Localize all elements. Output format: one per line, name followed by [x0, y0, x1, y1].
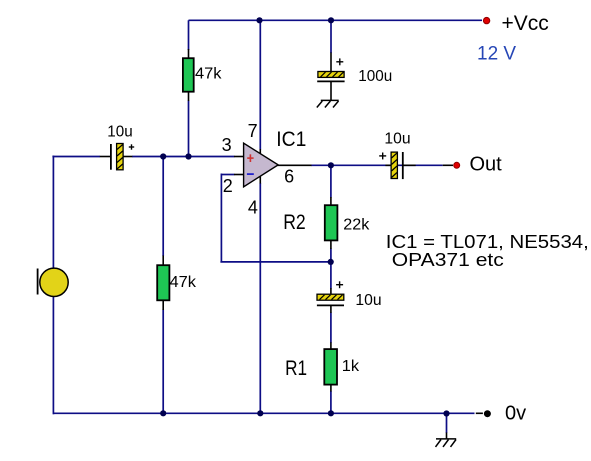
svg-text:10u: 10u	[384, 131, 410, 148]
svg-text:10u: 10u	[107, 124, 132, 141]
svg-text:47k: 47k	[170, 274, 198, 291]
svg-text:R1: R1	[285, 357, 307, 380]
svg-text:+Vcc: +Vcc	[502, 12, 549, 35]
svg-text:6: 6	[284, 167, 294, 187]
svg-text:12 V: 12 V	[477, 44, 516, 65]
svg-text:IC1: IC1	[276, 128, 306, 151]
svg-text:OPA371 etc: OPA371 etc	[392, 250, 504, 270]
svg-text:1k: 1k	[342, 358, 360, 375]
svg-text:2: 2	[223, 176, 233, 196]
svg-text:0v: 0v	[505, 402, 526, 424]
svg-text:3: 3	[222, 135, 232, 155]
svg-text:R2: R2	[283, 211, 306, 234]
svg-text:22k: 22k	[343, 216, 370, 233]
svg-text:IC1 = TL071, NE5534,: IC1 = TL071, NE5534,	[386, 232, 589, 252]
svg-text:Out: Out	[470, 153, 503, 175]
svg-text:10u: 10u	[355, 292, 381, 309]
svg-text:7: 7	[248, 121, 258, 141]
svg-text:100u: 100u	[358, 68, 392, 85]
svg-text:4: 4	[248, 198, 258, 218]
svg-text:47k: 47k	[195, 66, 223, 83]
